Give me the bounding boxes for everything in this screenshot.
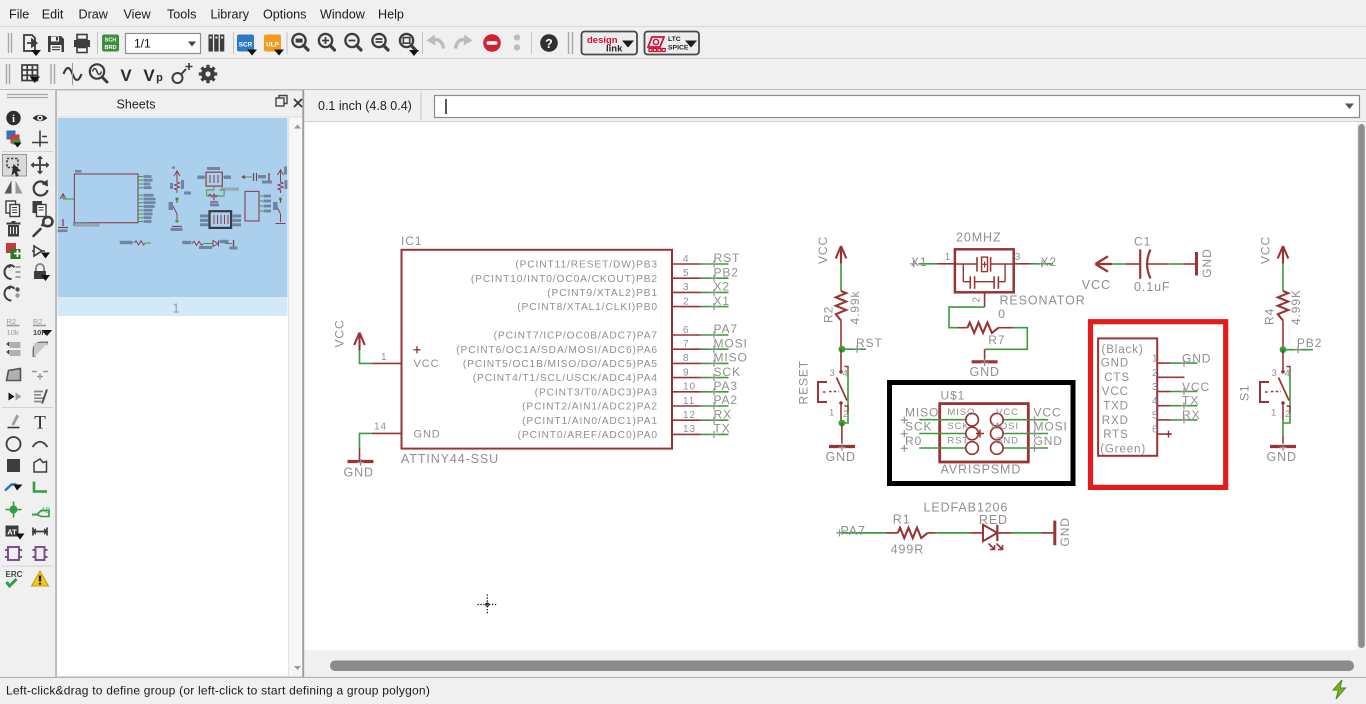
cursor crosshair bbox=[478, 595, 498, 615]
svg-text:C1: C1 bbox=[1134, 235, 1151, 249]
svg-text:RST: RST bbox=[714, 251, 741, 265]
pin VCC of U$1 (right row 1) bbox=[991, 406, 1062, 426]
node PB2 junction bbox=[1280, 336, 1323, 353]
svg-text:14: 14 bbox=[374, 422, 387, 433]
svg-text:VCC: VCC bbox=[333, 319, 347, 347]
svg-text:File: File bbox=[9, 8, 29, 22]
svg-text:Edit: Edit bbox=[42, 8, 64, 22]
pin 5 of IC1 with net label PB2 bbox=[471, 265, 739, 284]
svg-text:R0: R0 bbox=[905, 434, 922, 448]
svg-text:AVRISPSMD: AVRISPSMD bbox=[941, 463, 1022, 477]
wire S1 to GND bbox=[1282, 420, 1284, 444]
wire R7 to GND bbox=[985, 328, 1028, 350]
wire R4 to PB2 node bbox=[1282, 321, 1284, 350]
svg-text:R2: R2 bbox=[33, 317, 43, 326]
pin 14 GND of IC1 bbox=[360, 422, 402, 461]
svg-text:3: 3 bbox=[1015, 252, 1021, 263]
svg-text:(PCINT3/T0/ADC3)PA3: (PCINT3/T0/ADC3)PA3 bbox=[535, 387, 658, 398]
wire VCC to R4 bbox=[1282, 264, 1284, 291]
svg-text:SCK: SCK bbox=[714, 365, 741, 379]
svg-text:PA7: PA7 bbox=[841, 524, 866, 538]
pin RST of U$1 (left row 3) bbox=[901, 434, 979, 454]
svg-text:2: 2 bbox=[1152, 368, 1158, 379]
pin 12 of IC1 with net label RX bbox=[522, 407, 732, 426]
svg-text:9: 9 bbox=[683, 367, 689, 378]
svg-text:1: 1 bbox=[945, 252, 951, 263]
svg-text:6: 6 bbox=[683, 325, 689, 336]
svg-text:3: 3 bbox=[1272, 368, 1278, 379]
switch RESET pushbutton bbox=[797, 349, 850, 423]
svg-text:RX: RX bbox=[714, 407, 732, 421]
svg-text:(PCINT11/RESET/DW)PB3: (PCINT11/RESET/DW)PB3 bbox=[515, 260, 658, 271]
svg-text:PA3: PA3 bbox=[714, 379, 739, 393]
svg-text:V: V bbox=[143, 66, 155, 85]
supply symbol VCC at C1 (left arrow) bbox=[1082, 256, 1113, 292]
svg-text:0: 0 bbox=[998, 307, 1006, 321]
svg-text:(Black): (Black) bbox=[1102, 344, 1144, 356]
svg-text:U$1: U$1 bbox=[941, 388, 966, 402]
svg-text:VCC: VCC bbox=[414, 358, 440, 370]
svg-text:(Green): (Green) bbox=[1100, 443, 1146, 455]
connector FTDI body bbox=[1098, 338, 1157, 455]
svg-text:ERC: ERC bbox=[6, 570, 23, 579]
pin 2 of IC1 with net label X1 bbox=[517, 294, 730, 313]
svg-text:MOSI: MOSI bbox=[991, 421, 1019, 432]
svg-text:(PCINT6/OC1A/SDA/MOSI/ADC6)PA6: (PCINT6/OC1A/SDA/MOSI/ADC6)PA6 bbox=[456, 345, 658, 356]
svg-text:GND: GND bbox=[414, 429, 441, 441]
capacitor C1 0.1uF bbox=[1134, 235, 1170, 295]
svg-text:X1: X1 bbox=[714, 294, 730, 308]
svg-text:AT: AT bbox=[7, 527, 17, 536]
svg-text:ULP: ULP bbox=[266, 42, 280, 49]
wire R1 to LED bbox=[936, 532, 971, 534]
svg-text:1: 1 bbox=[381, 352, 387, 363]
svg-text:SCH: SCH bbox=[105, 38, 117, 44]
pin 6 of FTDI bbox=[1152, 425, 1172, 438]
resistor R4 4.99K bbox=[1263, 289, 1304, 325]
svg-text:(PCINT5/OC1B/MISO/DO/ADC5)PA5: (PCINT5/OC1B/MISO/DO/ADC5)PA5 bbox=[463, 359, 658, 370]
svg-text:V: V bbox=[120, 66, 132, 85]
svg-text:(PCINT0/AREF/ADC0)PA0: (PCINT0/AREF/ADC0)PA0 bbox=[518, 430, 658, 441]
svg-text:TX: TX bbox=[714, 422, 731, 436]
svg-text:2: 2 bbox=[972, 296, 983, 302]
resistor R1 499R bbox=[886, 513, 936, 557]
svg-text:link: link bbox=[606, 44, 623, 55]
svg-text:GND: GND bbox=[970, 365, 1000, 379]
svg-text:R2: R2 bbox=[7, 317, 17, 326]
svg-text:RESET: RESET bbox=[797, 360, 811, 405]
svg-text:3: 3 bbox=[1152, 382, 1158, 393]
svg-text:Help: Help bbox=[378, 8, 404, 22]
supply symbol VCC at IC1 bbox=[333, 319, 365, 350]
switch S1 pushbutton bbox=[1238, 350, 1292, 423]
pin 6 of IC1 with net label PA7 bbox=[494, 322, 738, 341]
svg-text:VCC: VCC bbox=[1034, 406, 1062, 420]
wire R2 to RST node bbox=[840, 321, 842, 350]
svg-text:X2: X2 bbox=[1041, 255, 1057, 269]
svg-text:11: 11 bbox=[683, 396, 695, 407]
svg-text:4.99K: 4.99K bbox=[1289, 289, 1303, 325]
svg-text:GND: GND bbox=[826, 450, 856, 464]
pin 1 VCC of IC1 bbox=[360, 348, 402, 363]
svg-text:RST: RST bbox=[947, 435, 969, 446]
svg-text:VCC: VCC bbox=[1259, 236, 1273, 264]
pin 10 of IC1 with net label PA3 bbox=[535, 379, 738, 398]
svg-text:12: 12 bbox=[683, 410, 696, 421]
svg-text:BRD: BRD bbox=[104, 45, 116, 51]
svg-text:Draw: Draw bbox=[79, 8, 109, 22]
pin 7 of IC1 with net label MOSI bbox=[456, 336, 748, 355]
svg-text:X1: X1 bbox=[911, 255, 927, 269]
svg-text:MISO: MISO bbox=[905, 406, 939, 420]
svg-text:3: 3 bbox=[683, 282, 689, 293]
pin 2 of FTDI bbox=[1152, 368, 1185, 379]
pin 5 of FTDI bbox=[1152, 408, 1200, 423]
svg-text:GND: GND bbox=[344, 466, 374, 480]
op-amp IC1 ATTINY44-SSU body bbox=[401, 234, 672, 466]
svg-text:PA2: PA2 bbox=[714, 393, 739, 407]
svg-text:(PCINT7/ICP/OC0B/ADC7)PA7: (PCINT7/ICP/OC0B/ADC7)PA7 bbox=[494, 331, 658, 342]
svg-text:RTS: RTS bbox=[1103, 429, 1129, 441]
svg-text:0.1 inch (4.8 0.4): 0.1 inch (4.8 0.4) bbox=[318, 99, 412, 113]
svg-text:Window: Window bbox=[320, 8, 366, 22]
svg-text:GND: GND bbox=[1058, 517, 1072, 546]
wire VCC to R2 bbox=[840, 264, 842, 291]
svg-text:LTC: LTC bbox=[668, 36, 681, 43]
svg-text:GND: GND bbox=[995, 435, 1019, 446]
svg-text:Sheets: Sheets bbox=[117, 98, 156, 112]
svg-text:PB2: PB2 bbox=[1297, 336, 1322, 350]
svg-text:RXD: RXD bbox=[1102, 415, 1129, 427]
svg-text:MISO: MISO bbox=[947, 407, 975, 418]
resistor R7 0 bbox=[958, 307, 1013, 347]
svg-text:5: 5 bbox=[1152, 410, 1158, 421]
svg-text:4: 4 bbox=[683, 254, 689, 265]
pin 11 of IC1 with net label PA2 bbox=[522, 393, 738, 412]
node RST junction bbox=[839, 336, 883, 353]
svg-text:13: 13 bbox=[683, 424, 696, 435]
svg-text:R2: R2 bbox=[822, 306, 836, 323]
svg-text:R4: R4 bbox=[1263, 308, 1277, 325]
svg-text:TXD: TXD bbox=[1103, 401, 1129, 413]
svg-text:R1: R1 bbox=[893, 513, 911, 527]
svg-text:VCC: VCC bbox=[996, 407, 1019, 418]
svg-text:AB: AB bbox=[41, 508, 51, 515]
svg-text:p: p bbox=[156, 72, 163, 84]
pin 3 of IC1 with net label X2 bbox=[547, 280, 730, 299]
svg-text:MOSI: MOSI bbox=[714, 336, 748, 350]
svg-text:SPICE: SPICE bbox=[668, 45, 689, 52]
svg-text:Library: Library bbox=[211, 8, 250, 22]
svg-text:1: 1 bbox=[829, 408, 835, 419]
svg-text:VCC: VCC bbox=[1102, 386, 1129, 398]
svg-text:RESONATOR: RESONATOR bbox=[1000, 294, 1086, 308]
svg-text:3: 3 bbox=[830, 368, 836, 379]
svg-text:GND: GND bbox=[1267, 450, 1297, 464]
pin 9 of IC1 with net label SCK bbox=[473, 365, 741, 384]
pin 3 wire with net label X2 bbox=[1014, 255, 1057, 269]
svg-text:10: 10 bbox=[683, 382, 696, 393]
svg-text:S1: S1 bbox=[1238, 385, 1252, 401]
svg-text:PA7: PA7 bbox=[714, 322, 739, 336]
pin MOSI of U$1 (right row 2) bbox=[991, 420, 1068, 440]
ground symbol GND below S1 bbox=[1267, 444, 1297, 464]
ground symbol GND below R7 bbox=[970, 359, 1000, 379]
connector U$1 AVRISPSMD highlight box bbox=[890, 383, 1074, 484]
svg-text:0.1uF: 0.1uF bbox=[1134, 280, 1170, 294]
svg-text:MOSI: MOSI bbox=[1034, 420, 1068, 434]
svg-text:6: 6 bbox=[1152, 425, 1158, 436]
svg-text:VCC: VCC bbox=[1182, 380, 1210, 394]
svg-text:?: ? bbox=[545, 37, 553, 51]
svg-text:Left-click&drag to define grou: Left-click&drag to define group (or left… bbox=[6, 684, 430, 698]
svg-text:(PCINT10/INT0/OC0A/CKOUT)PB2: (PCINT10/INT0/OC0A/CKOUT)PB2 bbox=[471, 274, 658, 285]
net label PA7 bbox=[836, 524, 866, 538]
svg-text:1: 1 bbox=[1152, 354, 1158, 365]
svg-text:7: 7 bbox=[683, 339, 689, 350]
pin 13 of IC1 with net label TX bbox=[518, 422, 731, 441]
pin 1 wire with net label X1 bbox=[910, 255, 955, 269]
pin GND of U$1 (right row 3) bbox=[991, 434, 1063, 454]
svg-text:IC1: IC1 bbox=[401, 234, 422, 248]
svg-text:i: i bbox=[12, 114, 15, 125]
svg-text:(PCINT1/AIN0/ADC1)PA1: (PCINT1/AIN0/ADC1)PA1 bbox=[522, 416, 658, 427]
svg-text:Options: Options bbox=[263, 8, 306, 22]
svg-text:R7: R7 bbox=[988, 333, 1005, 347]
svg-text:(PCINT4/T1/SCL/USCK/ADC4)PA4: (PCINT4/T1/SCL/USCK/ADC4)PA4 bbox=[473, 373, 658, 384]
svg-text:499R: 499R bbox=[891, 543, 924, 557]
pin 3 of FTDI bbox=[1152, 380, 1210, 395]
resonator Q1 20MHZ bbox=[945, 231, 1086, 308]
svg-text:TX: TX bbox=[1182, 394, 1199, 408]
ground symbol GND at LED bbox=[1055, 517, 1072, 546]
supply symbol VCC above R2 bbox=[816, 236, 846, 264]
pin 2 stub of resonator bbox=[984, 292, 986, 307]
ground symbol GND at IC1 bbox=[344, 459, 374, 480]
LED D1 RED LEDFAB1206 bbox=[924, 501, 1012, 550]
svg-text:VCC: VCC bbox=[1082, 278, 1111, 292]
svg-text:View: View bbox=[124, 8, 152, 22]
wire LED to GND bbox=[1012, 532, 1054, 534]
svg-text:10k: 10k bbox=[7, 328, 19, 337]
svg-text:MISO: MISO bbox=[714, 351, 748, 365]
connector FTDI highlight red box bbox=[1091, 322, 1226, 488]
svg-text:Tools: Tools bbox=[167, 8, 196, 22]
svg-text:5: 5 bbox=[683, 268, 689, 279]
svg-text:1: 1 bbox=[172, 301, 179, 316]
svg-text:1: 1 bbox=[1271, 408, 1277, 419]
wire VCC to C1 bbox=[1112, 263, 1140, 265]
svg-text:PB2: PB2 bbox=[714, 265, 739, 279]
svg-text:RX: RX bbox=[1182, 408, 1200, 422]
connector U$1 AVRISPSMD body bbox=[940, 388, 1029, 476]
pin SCK of U$1 (left row 2) bbox=[901, 420, 979, 440]
svg-text:GND: GND bbox=[1200, 248, 1214, 277]
svg-text:(PCINT8/XTAL1/CLKI)PB0: (PCINT8/XTAL1/CLKI)PB0 bbox=[517, 302, 658, 313]
svg-text:GND: GND bbox=[1101, 358, 1129, 370]
wire C1 to GND bbox=[1147, 263, 1195, 265]
svg-text:1/1: 1/1 bbox=[134, 37, 151, 51]
svg-text:4: 4 bbox=[1152, 396, 1158, 407]
svg-text:4.99k: 4.99k bbox=[848, 291, 862, 325]
node below RESET switch bbox=[839, 420, 846, 444]
ground symbol GND below RESET bbox=[826, 444, 856, 464]
svg-text:2: 2 bbox=[683, 296, 689, 307]
wire PA7 to R1 bbox=[841, 532, 886, 534]
svg-text:GND: GND bbox=[1182, 352, 1211, 366]
resistor R2 4.99k bbox=[822, 291, 863, 325]
svg-text:CTS: CTS bbox=[1104, 372, 1130, 384]
svg-text:SCR: SCR bbox=[239, 42, 253, 49]
svg-text:T: T bbox=[34, 413, 46, 434]
svg-text:X2: X2 bbox=[714, 280, 730, 294]
svg-text:ATTINY44-SSU: ATTINY44-SSU bbox=[401, 452, 499, 466]
svg-text:VCC: VCC bbox=[816, 236, 830, 264]
svg-text:GND: GND bbox=[1034, 434, 1063, 448]
pin 1 of FTDI bbox=[1152, 352, 1211, 367]
pin 4 of FTDI bbox=[1152, 394, 1199, 410]
svg-text:20MHZ: 20MHZ bbox=[956, 231, 1001, 245]
origin cross of U$1 bbox=[976, 430, 984, 438]
pin 4 of IC1 with net label RST bbox=[515, 251, 740, 270]
svg-text:8: 8 bbox=[683, 353, 689, 364]
svg-text:(PCINT2/AIN1/ADC2)PA2: (PCINT2/AIN1/ADC2)PA2 bbox=[522, 402, 658, 413]
svg-text:SCK: SCK bbox=[905, 420, 932, 434]
svg-text:SCK: SCK bbox=[947, 421, 969, 432]
svg-text:RST: RST bbox=[856, 336, 883, 350]
supply symbol VCC above R4 bbox=[1259, 236, 1289, 264]
ground symbol GND at C1 bbox=[1197, 248, 1215, 277]
svg-text:(PCINT9/XTAL2)PB1: (PCINT9/XTAL2)PB1 bbox=[547, 288, 658, 299]
pin MISO of U$1 (left row 1) bbox=[901, 406, 979, 426]
pin 8 of IC1 with net label MISO bbox=[463, 351, 748, 370]
wire resonator pin2 to R7 bbox=[949, 307, 985, 328]
